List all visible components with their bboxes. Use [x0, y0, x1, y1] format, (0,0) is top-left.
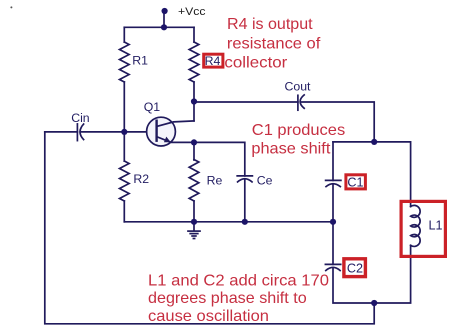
wire Cin to base bar — [80, 131, 156, 133]
wire collector node to Cout — [194, 101, 298, 103]
wire C1 bottom to mid node — [332, 184, 334, 222]
svg-text:R4 is output: R4 is output — [227, 16, 313, 33]
svg-text:phase shift: phase shift — [251, 140, 331, 157]
svg-text:collector: collector — [224, 55, 288, 72]
capacitor Cin — [77, 124, 83, 141]
wire top rail R1 to R4 — [124, 26, 194, 28]
node Cout C1 L1 — [371, 139, 377, 145]
node emitter — [191, 139, 197, 145]
wire C2 top lead — [332, 222, 334, 265]
wire R2 top lead — [123, 132, 125, 161]
wire bottom node to L1 bottom — [374, 245, 410, 303]
transistor Q1 — [147, 117, 194, 146]
node C2 L1 feedback — [371, 300, 377, 306]
node ground rail — [191, 219, 197, 225]
wire emitter row to Ce — [170, 142, 245, 176]
node Ce bottom — [242, 219, 248, 225]
resistor R2 — [120, 161, 130, 201]
wire feedback bottom — [45, 132, 374, 324]
svg-text:L1 and C2 add circa 170: L1 and C2 add circa 170 — [148, 272, 329, 289]
svg-text:Cout: Cout — [285, 79, 312, 93]
box R4 highlight — [204, 54, 223, 67]
svg-text:Ce: Ce — [257, 174, 273, 188]
wire node left to C1 column — [333, 141, 374, 143]
svg-text:R2: R2 — [133, 172, 149, 186]
svg-text:resistance of: resistance of — [227, 36, 321, 53]
wire bottom rail R2 to C1C2 node — [124, 221, 333, 223]
svg-text:C1: C1 — [347, 176, 363, 190]
svg-text:Cin: Cin — [71, 111, 90, 125]
capacitor Cout — [298, 95, 304, 110]
wire Ce bottom lead — [244, 180, 246, 222]
resistor R4 — [189, 42, 199, 82]
capacitor C2 — [325, 264, 340, 270]
wire R4 bottom to collector node — [193, 82, 195, 102]
wire C2 bottom to bottom node — [333, 268, 374, 303]
wire Cout to corner then down to node — [301, 102, 375, 142]
wire C1 top lead — [332, 142, 334, 181]
ground — [188, 222, 200, 239]
resistor Re — [189, 160, 199, 202]
svg-text:R1: R1 — [132, 54, 148, 68]
wire node right to L1 column — [374, 142, 410, 207]
svg-text:Q1: Q1 — [144, 100, 161, 114]
wire Re bottom lead — [193, 201, 195, 222]
wire R2 bottom lead — [123, 201, 125, 222]
svg-text:degrees phase shift to: degrees phase shift to — [148, 290, 307, 307]
svg-text:cause oscillation: cause oscillation — [148, 308, 269, 325]
wire R1 top lead — [123, 27, 125, 42]
node base — [121, 129, 127, 135]
wire R4 top lead — [193, 27, 195, 42]
wire Vcc stem — [163, 11, 165, 27]
inductor L1 — [411, 205, 421, 246]
node top rail junction — [161, 24, 167, 30]
wire Re top lead — [193, 142, 195, 160]
speck artifact — [10, 6, 12, 8]
node C1 C2 junction — [330, 219, 336, 225]
wire collector lead up — [193, 102, 195, 121]
svg-text:Re: Re — [207, 174, 223, 188]
capacitor Ce — [237, 176, 252, 182]
box C2 highlight — [344, 259, 366, 277]
node collector — [191, 98, 197, 104]
resistor R1 — [120, 42, 130, 82]
svg-text:C1 produces: C1 produces — [252, 122, 345, 139]
svg-text:L1: L1 — [429, 219, 443, 233]
box L1 highlight — [401, 201, 445, 256]
wire R1 bottom to base node — [123, 82, 125, 132]
svg-text:C2: C2 — [347, 262, 363, 276]
box C1 highlight — [346, 175, 366, 189]
svg-text:R4: R4 — [205, 54, 221, 68]
wire base from left rail through Cin — [45, 131, 78, 133]
capacitor C1 — [326, 180, 341, 186]
node Vcc terminal — [162, 8, 168, 14]
svg-text:+Vcc: +Vcc — [178, 6, 206, 18]
